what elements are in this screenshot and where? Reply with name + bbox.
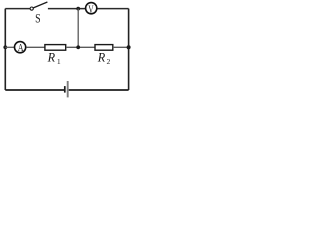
wire: left vertical from top-left corner down to bottom-left corner bbox=[4, 9, 6, 90]
svg-text:A: A bbox=[18, 43, 24, 54]
wire: vertical branch from top junction down to middle junction bbox=[77, 9, 79, 48]
wire: bottom segment from battery to bottom-right corner bbox=[69, 89, 129, 91]
voltmeter V bbox=[86, 3, 97, 14]
switch S pivot contact bbox=[30, 7, 33, 10]
wire: middle row from ammeter to R1 bbox=[26, 46, 44, 48]
wire: top segment from switch fixed contact to voltmeter bbox=[48, 8, 85, 10]
svg-text:R: R bbox=[47, 50, 56, 64]
wire: middle row from R1 to R2 (through junction) bbox=[66, 46, 95, 48]
svg-text:S: S bbox=[35, 12, 41, 26]
battery short plate (negative) bbox=[64, 86, 66, 93]
switch S blade (open) bbox=[33, 2, 47, 8]
svg-text:V: V bbox=[88, 3, 94, 16]
wire: top segment from voltmeter to top-right corner bbox=[97, 8, 128, 10]
svg-text:2: 2 bbox=[107, 57, 111, 66]
wire: middle row from R2 to right junction bbox=[113, 46, 129, 48]
junction node at top (voltmeter branch tap) bbox=[76, 7, 80, 11]
junction node on right vertical (middle row) bbox=[127, 45, 131, 49]
resistor R1 bbox=[45, 45, 66, 51]
svg-text:1: 1 bbox=[57, 57, 61, 66]
junction node on left vertical (middle row) bbox=[3, 45, 7, 49]
wire: middle row from left junction to ammeter bbox=[5, 46, 14, 48]
wire: right vertical from top-right corner to bottom-right corner bbox=[128, 9, 130, 90]
wire: bottom segment from bottom-left corner to battery bbox=[5, 89, 64, 91]
wire: top segment from top-left corner to switch pivot bbox=[5, 8, 30, 10]
resistor R2 bbox=[95, 45, 113, 51]
svg-text:R: R bbox=[97, 51, 106, 65]
junction node middle (voltmeter branch bottom) bbox=[76, 45, 80, 49]
battery long plate (positive) bbox=[67, 81, 69, 97]
ammeter A bbox=[15, 42, 26, 53]
